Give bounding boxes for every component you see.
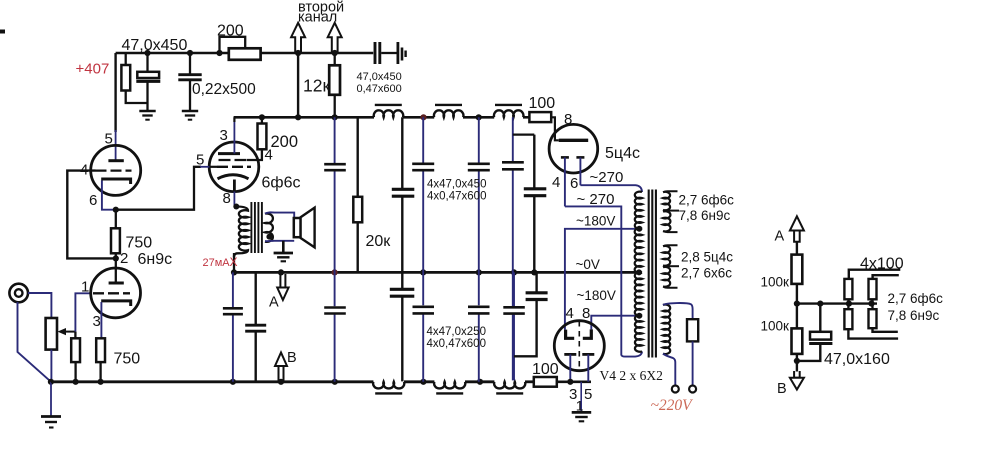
- resistor R-bleed (vertical, top-left): [125, 53, 127, 65]
- plate of V1b (pin 2): [109, 282, 124, 285]
- svg-text:27мА: 27мА: [203, 257, 231, 269]
- svg-text:6: 6: [570, 175, 578, 192]
- svg-text:4: 4: [265, 147, 273, 164]
- T2 primary HV winding section 1: [635, 192, 642, 229]
- control grid dashes of V2 (pin 5): [217, 166, 251, 168]
- T2 core: [649, 190, 656, 358]
- svg-text:1: 1: [81, 279, 89, 296]
- tube V2 6ф6с: [209, 142, 259, 192]
- svg-text:4x47,0x250: 4x47,0x250: [427, 326, 486, 338]
- T2 heater winding 2,7 6ф6с: [663, 192, 670, 210]
- speaker: [294, 218, 301, 237]
- svg-text:4: 4: [566, 305, 574, 322]
- cathode of V1a (pin 6): [101, 179, 130, 184]
- svg-text:750: 750: [114, 351, 141, 368]
- resistor R3 12k: [332, 50, 338, 56]
- ground under V4: [580, 382, 582, 412]
- ground under C1: [139, 110, 155, 113]
- resistor R6 20к column: [357, 117, 359, 197]
- svg-text:20к: 20к: [366, 233, 392, 250]
- grid dashes of V1a (pin 4): [96, 169, 132, 171]
- ground at input bus: [48, 379, 54, 385]
- T2 heater winding 2,7 6х6с: [663, 267, 670, 287]
- heater wire lower 1: [873, 328, 898, 332]
- grid dashes of V1b (pin 1): [93, 292, 130, 294]
- arrow node A right (up): [790, 216, 804, 230]
- T2 primary HV winding section 2: [635, 228, 642, 273]
- wire: mains bottom to terminal: [663, 354, 675, 386]
- svg-text:V4 2 x 6X2: V4 2 x 6X2: [600, 368, 663, 383]
- svg-text:8: 8: [582, 305, 590, 322]
- arrow node B right (down): [794, 371, 800, 378]
- cap column x423 (navy, upper + lower): [422, 117, 424, 382]
- resistor 100 b: [869, 279, 877, 299]
- cap column x334 (navy, upper + lower): [334, 117, 336, 382]
- svg-text:2,8 5ц4с: 2,8 5ц4с: [681, 250, 733, 265]
- node: V1b plate / V1a grid / 750 junction: [113, 255, 119, 261]
- svg-text:~ 270: ~ 270: [577, 191, 615, 208]
- wire: plate riser of V1a to rail: [114, 53, 116, 132]
- bottom ground bus: [51, 380, 374, 383]
- anode 6 of V3: [576, 156, 584, 159]
- resistor R 750 (V1a cathode): [115, 210, 117, 229]
- heater wire lower 2: [848, 329, 898, 338]
- svg-text:~220V: ~220V: [651, 397, 694, 414]
- resistor R5 200 (screen): [259, 114, 265, 120]
- arrow node A (down): [280, 274, 285, 288]
- svg-text:~180V: ~180V: [577, 288, 616, 303]
- heater wire upper 1: [849, 270, 901, 279]
- svg-text:8: 8: [223, 190, 231, 207]
- tube V1a 6н9с upper triode: [91, 145, 141, 195]
- svg-text:200: 200: [217, 23, 244, 40]
- plate of V1a (pin 5): [108, 159, 123, 162]
- svg-text:4: 4: [552, 174, 560, 191]
- svg-text:5: 5: [584, 386, 592, 403]
- wire bus between chokes: [463, 116, 494, 119]
- svg-text:100: 100: [529, 95, 556, 112]
- svg-text:2,7 6х6с: 2,7 6х6с: [681, 266, 732, 281]
- wire: jack shell to ground bus (diagonal): [18, 302, 51, 381]
- svg-text:канал: канал: [298, 10, 337, 26]
- wire: V1a grid feedback loop to V1b plate node: [67, 171, 113, 259]
- wire ~270 pin4 to transformer bottom: [565, 206, 642, 356]
- svg-text:2,7 6ф6с: 2,7 6ф6с: [888, 291, 944, 306]
- cathode A of V4: [564, 353, 576, 356]
- T2 heater winding 2,8 5ц4с: [663, 246, 670, 266]
- wire: +407 rail y53: [116, 52, 374, 54]
- wire ~180V tap3 to V4 anode 8: [591, 316, 638, 330]
- resistor 100к upper: [796, 242, 798, 255]
- svg-text:B: B: [287, 350, 297, 366]
- wire: V1a cathode node to V2 grid: [116, 167, 201, 210]
- capacitor 47,0x160: [819, 304, 821, 332]
- svg-text:100к: 100к: [761, 319, 790, 334]
- choke L3: [494, 110, 524, 117]
- screen grid dashes of V2: [219, 159, 247, 161]
- T2 tap stub ~180V lower: [638, 315, 642, 317]
- B+ plate bus y117: [234, 116, 374, 119]
- 0V tap: [636, 269, 642, 275]
- svg-text:100к: 100к: [761, 275, 790, 290]
- cathode B of V4: [582, 353, 594, 356]
- svg-text:3: 3: [220, 127, 228, 144]
- resistor 100к lower: [792, 328, 803, 354]
- svg-text:750: 750: [126, 235, 153, 252]
- capacitor C3 coupling to 2nd channel: [375, 42, 380, 64]
- arrow node B (up): [279, 366, 284, 382]
- wire ~270 pin6 to transformer top: [580, 185, 642, 192]
- resistor 750 cathode V1b: [96, 338, 105, 362]
- wire: T1 secondary bottom to speaker and ground: [265, 240, 294, 242]
- plate of V2 (pin 3): [218, 152, 240, 155]
- wire: T1 secondary top to speaker: [265, 212, 294, 218]
- input jack: [9, 284, 28, 303]
- mains terminals: [672, 386, 679, 393]
- wire: wiper to V1b grid: [75, 293, 90, 331]
- svg-text:2: 2: [120, 250, 128, 267]
- svg-text:200: 200: [271, 133, 299, 151]
- svg-text:6н9с: 6н9с: [138, 251, 173, 268]
- svg-text:B: B: [777, 381, 787, 397]
- anode 4 of V3: [561, 156, 569, 159]
- svg-text:7,8 6н9с: 7,8 6н9с: [679, 208, 731, 223]
- cap column x513 (navy, upper + lower): [513, 117, 514, 380]
- resistor 100 a: [844, 279, 852, 299]
- svg-text:A: A: [269, 295, 279, 311]
- ground under C2: [182, 110, 198, 113]
- electrolytic column x402 (black, upper + lower): [401, 117, 403, 381]
- svg-text:4x0,47x600: 4x0,47x600: [427, 338, 486, 350]
- T2 primary HV winding section 4: [635, 315, 642, 352]
- choke L6 (bottom): [494, 382, 525, 389]
- wire: mains top to fuse: [663, 303, 693, 319]
- svg-text:8: 8: [564, 111, 572, 128]
- T2 heater winding 7,8 6н9с: [663, 211, 670, 231]
- svg-text:1: 1: [576, 398, 584, 414]
- T2 mains winding 220V: [663, 305, 670, 355]
- resistor grid-leak (left 750): [74, 332, 76, 339]
- svg-text:~180V: ~180V: [576, 214, 615, 229]
- heater wire upper 2: [873, 275, 899, 279]
- svg-text:A: A: [775, 229, 785, 245]
- bias node bus: [796, 302, 878, 304]
- svg-text:100: 100: [532, 361, 559, 378]
- svg-text:+407: +407: [76, 61, 110, 78]
- cathode of V2 (pin 8): [218, 175, 249, 179]
- svg-text:47,0x160: 47,0x160: [824, 351, 890, 368]
- T2 primary HV winding section 3: [635, 272, 642, 315]
- T2 tap stub ~180V: [638, 228, 642, 230]
- plate bar of V3 (pin 8 output): [559, 139, 589, 142]
- cathode of V1b (pin 3): [101, 301, 131, 306]
- T1 secondary winding: [265, 213, 273, 241]
- svg-text:6ф6с: 6ф6с: [262, 175, 301, 192]
- T1 core: [251, 202, 262, 253]
- cap column under T1 (navy): [232, 272, 234, 381]
- svg-text:Х: Х: [230, 255, 238, 269]
- tube V4 2x6X2: [554, 321, 604, 371]
- potentiometer: [46, 318, 57, 350]
- svg-text:4x47,0x450: 4x47,0x450: [427, 179, 486, 191]
- svg-text:3: 3: [93, 313, 101, 330]
- svg-text:12к: 12к: [303, 76, 330, 96]
- tube V1b 6н9с lower triode: [91, 268, 141, 318]
- svg-text:0,22x500: 0,22x500: [192, 81, 256, 98]
- capacitor C2 0,22x500: [187, 50, 193, 56]
- middle 0V bus: [234, 271, 641, 274]
- wire: link rail to plate bus at x298: [295, 50, 301, 56]
- svg-text:2,7 6ф6с: 2,7 6ф6с: [679, 193, 735, 208]
- output transformer T1 primary (cathode winding): [233, 204, 239, 210]
- svg-text:~270: ~270: [590, 169, 624, 186]
- sideways ground at 2nd channel: [396, 42, 399, 64]
- electrolytic column x534 (black, upper + lower): [514, 135, 537, 357]
- choke L4 (bottom): [373, 382, 404, 389]
- wire: jack to volume pot: [28, 293, 51, 318]
- capacitor C1 47,0x450 (polarized): [144, 50, 150, 56]
- resistor 100 c: [844, 309, 852, 329]
- svg-text:7,8 6н9с: 7,8 6н9с: [888, 308, 940, 323]
- svg-text:47,0x450: 47,0x450: [357, 71, 402, 83]
- resistor R7 100 (bias series): [534, 377, 557, 387]
- svg-text:4x0,47x600: 4x0,47x600: [427, 191, 486, 203]
- resistor R2 200 (horizontal with tap hook): [216, 50, 222, 56]
- wire ~180V tap1 to V4 anode 4: [565, 229, 639, 330]
- arrow to 2nd channel (right): [328, 23, 342, 53]
- anode B of V4: [583, 329, 592, 338]
- svg-text:6: 6: [89, 192, 97, 209]
- pot wiper arrow: [64, 331, 75, 333]
- jog from x513 to x534 at y134.6: [513, 133, 535, 135]
- stray mark top-left corner: [0, 30, 5, 34]
- wire bus between chokes: [403, 116, 434, 119]
- choke L1: [374, 110, 404, 117]
- arrow to 2nd channel (left): [291, 23, 305, 53]
- svg-text:0,47x600: 0,47x600: [357, 83, 402, 95]
- choke L2: [434, 110, 464, 117]
- wire bus after choke L3: [523, 116, 529, 119]
- T2 tap stub 0V: [638, 271, 642, 273]
- svg-text:~0V: ~0V: [576, 257, 600, 272]
- anode A of V4: [566, 330, 575, 339]
- resistor 100 d: [869, 309, 877, 328]
- svg-text:5ц4с: 5ц4с: [605, 145, 640, 162]
- svg-text:5: 5: [105, 131, 113, 148]
- svg-text:47,0x450: 47,0x450: [122, 37, 188, 54]
- choke L5 (bottom): [434, 382, 465, 389]
- resistor R4 100 (B+ series): [529, 112, 551, 122]
- wire to 5ц4с cathode pin 8: [551, 117, 559, 140]
- cap column x478 (navy, upper + lower): [478, 117, 480, 382]
- ground under speaker: [274, 252, 293, 255]
- fuse: [687, 319, 698, 341]
- tube V3 5ц4с rectifier: [549, 124, 598, 173]
- cap column x255 (black): [254, 272, 256, 381]
